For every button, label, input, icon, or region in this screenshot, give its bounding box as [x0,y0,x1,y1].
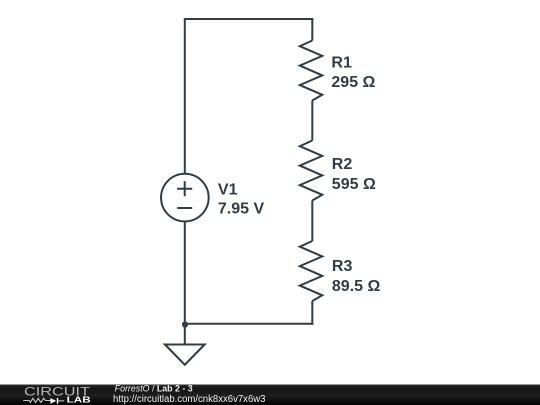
svg-text:R3: R3 [332,258,353,275]
footer title text [115,383,193,393]
wire: V1 bottom lead to junction [184,221,186,324]
wire: R1 to R2 [311,101,313,141]
svg-text:LAB: LAB [67,395,91,405]
svg-text:89.5 Ω: 89.5 Ω [332,278,381,295]
wire: R3 to bottom-right corner [311,301,313,325]
footer logo LAB [67,395,91,405]
voltage source V1 [161,174,209,222]
svg-text:http://circuitlab.com/cnk8xx6v: http://circuitlab.com/cnk8xx6v7x6w3 [113,394,266,405]
svg-text:R1: R1 [331,55,352,72]
junction node [182,321,188,327]
wire: V1 top lead to top-left corner [184,19,186,174]
wire: top horizontal [184,18,313,20]
svg-text:ForrestO / Lab 2 - 3: ForrestO / Lab 2 - 3 [115,383,193,393]
label R2 value 595 Ω [332,156,376,193]
svg-text:595 Ω: 595 Ω [332,176,376,193]
label R1 value 295 Ω [331,55,375,91]
resistor R3 [300,241,323,301]
ground [165,345,205,365]
label V1 value 7.95 V [218,181,265,217]
footer logo CIRCUIT [24,386,90,398]
svg-text:V1: V1 [218,181,238,198]
svg-text:295 Ω: 295 Ω [331,74,375,91]
wire: junction to ground [184,325,186,344]
wire: bottom horizontal [185,323,313,325]
footer url text [113,394,266,405]
wire: top-right corner down to R1 [311,18,313,41]
wire: R2 to R3 [311,201,313,242]
footer logo resistor squiggle [23,398,50,402]
label R3 value 89.5 Ω [332,258,381,295]
resistor R1 [300,41,323,101]
footer logo diode [50,398,64,404]
footer bar [0,385,540,405]
resistor R2 [300,141,323,201]
svg-text:R2: R2 [332,156,353,173]
svg-text:7.95 V: 7.95 V [218,200,265,217]
